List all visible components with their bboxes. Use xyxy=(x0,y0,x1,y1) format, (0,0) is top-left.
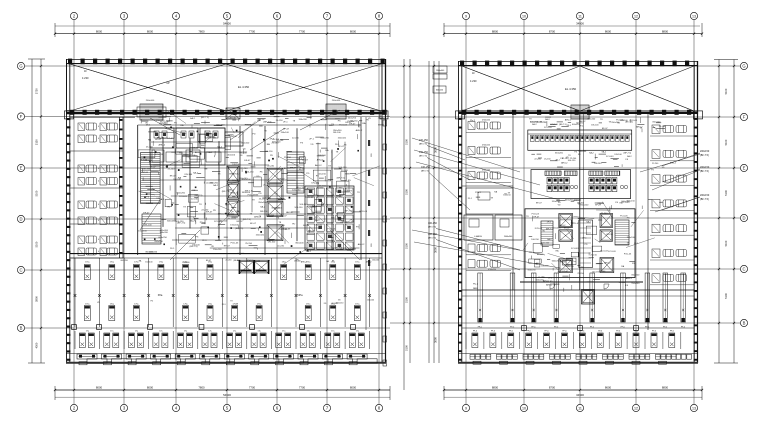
svg-text:5750: 5750 xyxy=(35,88,39,94)
svg-text:350x200: 350x200 xyxy=(578,151,587,153)
svg-text:PD: PD xyxy=(167,206,170,208)
svg-text:22-240: 22-240 xyxy=(206,183,214,185)
svg-text:EF-07: EF-07 xyxy=(563,271,570,273)
svg-text:FP-6: FP-6 xyxy=(652,331,656,333)
svg-text:25-150: 25-150 xyxy=(275,208,283,210)
svg-text:22-240: 22-240 xyxy=(652,163,659,165)
svg-text:(BF-7.5): (BF-7.5) xyxy=(194,195,202,197)
svg-text:FP-6: FP-6 xyxy=(616,331,620,333)
svg-text:22-240: 22-240 xyxy=(292,137,300,139)
svg-text:600x250: 600x250 xyxy=(566,266,575,268)
svg-text:AHU-2: AHU-2 xyxy=(228,189,235,192)
svg-text:25-150: 25-150 xyxy=(316,188,324,190)
svg-text:150x100: 150x100 xyxy=(367,299,374,301)
svg-text:EF-07: EF-07 xyxy=(534,217,541,219)
svg-text:(BF-7.5): (BF-7.5) xyxy=(207,137,215,139)
svg-text:8600: 8600 xyxy=(605,29,612,33)
svg-text:100-150: 100-150 xyxy=(299,204,308,206)
svg-text:1:230: 1:230 xyxy=(82,76,89,80)
svg-text:25-150: 25-150 xyxy=(276,120,284,122)
svg-text:8000: 8000 xyxy=(96,29,103,33)
svg-text:11: 11 xyxy=(578,15,582,19)
svg-text:DN-100: DN-100 xyxy=(333,132,341,134)
svg-text:25-150: 25-150 xyxy=(272,143,280,145)
svg-text:AHU-2: AHU-2 xyxy=(157,136,164,139)
svg-text:350x200: 350x200 xyxy=(587,119,596,121)
svg-text:DN-100: DN-100 xyxy=(144,224,152,226)
svg-text:150x100: 150x100 xyxy=(372,260,379,262)
svg-text:2F-1: 2F-1 xyxy=(146,125,151,127)
svg-text:AHU-2: AHU-2 xyxy=(301,261,307,264)
svg-text:EF-07: EF-07 xyxy=(250,223,257,225)
svg-text:7800: 7800 xyxy=(198,29,205,33)
svg-text:(BF-7.5): (BF-7.5) xyxy=(235,228,243,230)
svg-text:25-150: 25-150 xyxy=(544,158,551,160)
svg-text:RA: RA xyxy=(325,149,329,152)
svg-text:8000: 8000 xyxy=(350,386,357,390)
svg-text:100-150: 100-150 xyxy=(531,239,539,241)
svg-text:FCU-03: FCU-03 xyxy=(231,243,239,245)
svg-text:P2a 2: P2a 2 xyxy=(475,192,481,194)
svg-text:SA-2: SA-2 xyxy=(207,151,213,154)
svg-text:600x250: 600x250 xyxy=(436,90,443,92)
svg-text:T8: T8 xyxy=(230,301,232,303)
svg-text:4700x250: 4700x250 xyxy=(488,269,496,271)
svg-text:100-150: 100-150 xyxy=(421,166,430,169)
svg-text:8800: 8800 xyxy=(662,386,669,390)
svg-text:(BF-7.5): (BF-7.5) xyxy=(201,117,209,119)
svg-text:DN-100: DN-100 xyxy=(551,124,559,126)
svg-text:13: 13 xyxy=(692,407,696,411)
svg-text:EL 4.350: EL 4.350 xyxy=(565,87,577,91)
svg-text:RA: RA xyxy=(332,240,336,243)
svg-text:350x200: 350x200 xyxy=(580,205,589,207)
svg-text:350x200: 350x200 xyxy=(631,274,640,276)
svg-text:FCU-03: FCU-03 xyxy=(339,125,347,127)
svg-text:100-150: 100-150 xyxy=(253,260,260,262)
svg-text:EF-07: EF-07 xyxy=(206,212,213,214)
svg-text:22-240: 22-240 xyxy=(241,168,249,170)
svg-text:4: 4 xyxy=(98,220,99,222)
svg-text:SA-2: SA-2 xyxy=(201,144,207,147)
svg-text:SA-2: SA-2 xyxy=(193,172,199,175)
svg-text:RS: RS xyxy=(371,243,373,247)
svg-text:(BF-7.5): (BF-7.5) xyxy=(421,171,429,173)
svg-text:AHU-2: AHU-2 xyxy=(254,216,261,219)
svg-text:350x200: 350x200 xyxy=(295,242,304,244)
svg-text:FCU-03: FCU-03 xyxy=(624,254,632,256)
svg-text:3000: 3000 xyxy=(434,247,438,253)
svg-text:FCU-03: FCU-03 xyxy=(328,229,336,231)
svg-text:25-150: 25-150 xyxy=(590,255,597,257)
svg-text:PD: PD xyxy=(366,120,369,122)
svg-text:22-240: 22-240 xyxy=(601,213,608,215)
svg-text:PD: PD xyxy=(292,224,295,226)
svg-text:11: 11 xyxy=(578,407,582,411)
svg-text:PD: PD xyxy=(315,217,318,219)
svg-text:EF-07: EF-07 xyxy=(338,146,345,148)
svg-text:2000x300: 2000x300 xyxy=(504,236,512,238)
svg-text:RS: RS xyxy=(371,153,373,157)
svg-text:600x250: 600x250 xyxy=(121,260,128,262)
svg-text:9: 9 xyxy=(465,15,467,19)
svg-text:FCU-03: FCU-03 xyxy=(283,228,291,230)
svg-text:G: G xyxy=(742,64,745,69)
svg-text:25-150: 25-150 xyxy=(140,160,148,162)
svg-text:FCU-03: FCU-03 xyxy=(630,120,638,122)
svg-text:(BF-7.5): (BF-7.5) xyxy=(624,152,632,154)
svg-text:600x250: 600x250 xyxy=(263,198,272,200)
svg-text:8000: 8000 xyxy=(147,386,154,390)
svg-text:FP-6: FP-6 xyxy=(580,331,584,333)
svg-text:FP-6: FP-6 xyxy=(491,331,495,333)
svg-text:VD: VD xyxy=(256,176,259,178)
svg-text:VD: VD xyxy=(186,157,189,159)
svg-text:2F-1: 2F-1 xyxy=(270,138,275,140)
svg-text:22-240: 22-240 xyxy=(534,158,541,160)
svg-text:54600: 54600 xyxy=(223,22,231,26)
svg-text:PD: PD xyxy=(213,210,216,212)
svg-text:1:230: 1:230 xyxy=(470,79,477,83)
svg-text:8000: 8000 xyxy=(147,29,154,33)
svg-text:200x100: 200x100 xyxy=(332,100,341,102)
svg-text:25-150: 25-150 xyxy=(284,157,292,159)
svg-text:FCU-03: FCU-03 xyxy=(608,251,616,253)
svg-text:(BF-7.5): (BF-7.5) xyxy=(700,170,709,173)
svg-text:22-240: 22-240 xyxy=(168,169,176,171)
svg-text:100-150: 100-150 xyxy=(568,160,576,162)
svg-text:5150: 5150 xyxy=(35,139,39,145)
svg-text:150x100: 150x100 xyxy=(541,242,550,244)
svg-text:5100: 5100 xyxy=(724,88,728,94)
svg-text:10: 10 xyxy=(522,407,526,411)
svg-text:NPa: NPa xyxy=(297,293,303,297)
svg-text:350x200: 350x200 xyxy=(652,122,661,124)
svg-text:22-240: 22-240 xyxy=(332,303,338,305)
svg-text:(BF-7.5): (BF-7.5) xyxy=(344,211,352,213)
svg-text:FP-6: FP-6 xyxy=(598,331,602,333)
svg-text:25-150: 25-150 xyxy=(146,147,154,149)
svg-text:22-240: 22-240 xyxy=(341,170,349,172)
svg-text:(BF-7.5): (BF-7.5) xyxy=(337,178,345,180)
svg-text:350x200: 350x200 xyxy=(242,179,251,181)
svg-text:2F-1: 2F-1 xyxy=(202,240,207,242)
svg-text:200x150: 200x150 xyxy=(700,150,710,153)
svg-text:F: F xyxy=(20,114,23,119)
svg-text:DN-100: DN-100 xyxy=(314,225,322,227)
svg-text:FCU-03: FCU-03 xyxy=(179,196,187,198)
svg-text:EF-07: EF-07 xyxy=(279,179,286,181)
svg-text:4: 4 xyxy=(98,204,99,206)
svg-text:150x100: 150x100 xyxy=(627,237,636,239)
svg-text:150x100: 150x100 xyxy=(256,234,265,236)
svg-text:AHU-2: AHU-2 xyxy=(626,277,633,280)
svg-text:G: G xyxy=(19,64,22,69)
svg-text:150x100: 150x100 xyxy=(145,261,152,263)
svg-text:22-240: 22-240 xyxy=(191,199,199,201)
svg-text:5100: 5100 xyxy=(405,297,409,303)
svg-text:FCU-03: FCU-03 xyxy=(155,154,163,156)
svg-text:DN-100: DN-100 xyxy=(232,164,240,166)
svg-text:VD: VD xyxy=(243,148,246,150)
svg-text:54600: 54600 xyxy=(223,393,231,397)
svg-text:34900: 34900 xyxy=(576,393,584,397)
svg-text:12: 12 xyxy=(634,407,638,411)
svg-text:EF-07: EF-07 xyxy=(170,176,177,178)
svg-text:4: 4 xyxy=(98,168,99,170)
svg-text:4: 4 xyxy=(98,239,99,241)
svg-text:VD: VD xyxy=(156,198,159,200)
svg-text:DN-100: DN-100 xyxy=(591,125,599,127)
svg-text:VD: VD xyxy=(617,123,620,125)
svg-text:350x200: 350x200 xyxy=(299,119,308,121)
svg-text:8800: 8800 xyxy=(492,386,499,390)
svg-text:Pla 2: Pla 2 xyxy=(470,120,476,122)
svg-text:22-240: 22-240 xyxy=(226,260,232,262)
svg-text:DN-100: DN-100 xyxy=(192,244,200,246)
svg-text:22-240: 22-240 xyxy=(378,118,386,120)
svg-text:100-150: 100-150 xyxy=(346,222,355,224)
svg-text:600x250: 600x250 xyxy=(321,137,330,139)
svg-text:4: 4 xyxy=(98,126,99,128)
svg-text:AHU-2: AHU-2 xyxy=(286,211,293,214)
svg-text:10: 10 xyxy=(522,15,526,19)
svg-text:EF-07: EF-07 xyxy=(303,225,310,227)
svg-text:(BF-7.5): (BF-7.5) xyxy=(700,198,709,201)
svg-text:4: 4 xyxy=(98,138,99,140)
svg-text:EF-07: EF-07 xyxy=(224,245,231,247)
svg-text:7800: 7800 xyxy=(198,386,205,390)
svg-text:EF-07: EF-07 xyxy=(536,203,543,205)
svg-text:PD: PD xyxy=(282,225,285,227)
svg-text:PD: PD xyxy=(306,173,309,175)
svg-text:FCU-03: FCU-03 xyxy=(306,197,314,199)
svg-text:PD: PD xyxy=(321,204,324,206)
svg-text:22-240: 22-240 xyxy=(599,271,606,273)
svg-text:600x250: 600x250 xyxy=(528,270,537,272)
svg-text:DN-100: DN-100 xyxy=(541,265,549,267)
svg-text:100-150: 100-150 xyxy=(428,222,437,225)
svg-text:DN-100: DN-100 xyxy=(268,242,276,244)
svg-text:100-150: 100-150 xyxy=(142,169,151,171)
svg-text:(BF-7.5): (BF-7.5) xyxy=(428,238,436,240)
svg-text:34900: 34900 xyxy=(576,22,584,26)
svg-text:SA-2: SA-2 xyxy=(260,206,266,209)
svg-text:PD: PD xyxy=(585,244,588,246)
svg-text:PD: PD xyxy=(259,193,262,195)
svg-text:150x100: 150x100 xyxy=(241,143,250,145)
svg-text:22-240: 22-240 xyxy=(267,166,275,168)
svg-text:(BF-7.5): (BF-7.5) xyxy=(419,144,427,146)
svg-text:FCU-03: FCU-03 xyxy=(532,214,540,216)
svg-text:SA-2: SA-2 xyxy=(315,219,321,222)
svg-text:FCU-03: FCU-03 xyxy=(571,248,579,250)
svg-text:8700: 8700 xyxy=(549,29,556,33)
svg-text:100-150: 100-150 xyxy=(175,221,184,223)
svg-text:EF-07: EF-07 xyxy=(237,221,244,223)
svg-text:150x100: 150x100 xyxy=(227,154,236,156)
svg-text:12: 12 xyxy=(634,15,638,19)
svg-text:2F-1: 2F-1 xyxy=(283,121,288,123)
svg-text:NR8: NR8 xyxy=(476,197,481,199)
svg-text:9: 9 xyxy=(465,407,467,411)
svg-text:PD: PD xyxy=(203,223,206,225)
svg-text:150x100: 150x100 xyxy=(631,283,640,285)
svg-text:350x200: 350x200 xyxy=(555,153,564,155)
svg-text:EF-07: EF-07 xyxy=(299,169,306,171)
svg-text:F: F xyxy=(743,115,746,120)
svg-text:(BF-7.5): (BF-7.5) xyxy=(428,227,436,229)
svg-text:FP-6: FP-6 xyxy=(527,331,531,333)
svg-text:350x200: 350x200 xyxy=(154,241,163,243)
svg-text:SA-2: SA-2 xyxy=(213,184,219,187)
svg-text:VD: VD xyxy=(558,205,561,207)
svg-text:5100: 5100 xyxy=(35,190,39,196)
svg-text:5800: 5800 xyxy=(35,296,39,302)
svg-text:7700: 7700 xyxy=(249,29,256,33)
svg-text:PD: PD xyxy=(253,134,256,136)
svg-text:VD: VD xyxy=(566,157,569,159)
svg-text:5100: 5100 xyxy=(724,190,728,196)
svg-text:100-150: 100-150 xyxy=(292,189,301,191)
svg-text:8000: 8000 xyxy=(96,386,103,390)
svg-text:SA-2: SA-2 xyxy=(217,146,223,149)
svg-text:EF-07: EF-07 xyxy=(281,215,288,217)
svg-text:EF-07: EF-07 xyxy=(308,231,315,233)
svg-text:5100: 5100 xyxy=(724,240,728,246)
svg-text:RA: RA xyxy=(362,122,366,125)
svg-text:5100: 5100 xyxy=(35,241,39,247)
svg-text:RA: RA xyxy=(180,124,184,127)
svg-text:2F-1: 2F-1 xyxy=(309,139,314,141)
svg-text:25-150: 25-150 xyxy=(245,243,253,245)
svg-text:DN-100: DN-100 xyxy=(260,211,268,213)
svg-text:PD: PD xyxy=(270,155,273,157)
svg-text:RA: RA xyxy=(267,143,271,146)
svg-text:350x200: 350x200 xyxy=(552,228,561,230)
svg-text:4700x250: 4700x250 xyxy=(482,120,490,122)
svg-text:25-150: 25-150 xyxy=(227,213,235,215)
svg-text:600x250: 600x250 xyxy=(621,201,630,203)
svg-text:EF-07: EF-07 xyxy=(290,167,297,169)
svg-text:4700x250: 4700x250 xyxy=(482,145,490,147)
svg-text:150x100: 150x100 xyxy=(213,249,222,251)
svg-text:E: E xyxy=(20,166,23,171)
svg-text:FCU-03: FCU-03 xyxy=(606,156,614,158)
svg-text:P2a: P2a xyxy=(158,293,163,297)
svg-text:600x250: 600x250 xyxy=(552,261,561,263)
svg-text:22-240: 22-240 xyxy=(277,246,285,248)
svg-text:PD: PD xyxy=(179,153,182,155)
svg-text:25-150: 25-150 xyxy=(335,248,343,250)
svg-text:DN-100: DN-100 xyxy=(173,179,181,181)
svg-text:3000: 3000 xyxy=(434,147,438,153)
svg-text:1900x600: 1900x600 xyxy=(436,70,444,72)
svg-text:4300: 4300 xyxy=(35,342,39,348)
svg-text:5100: 5100 xyxy=(724,293,728,299)
svg-text:7700: 7700 xyxy=(299,29,306,33)
svg-text:PD: PD xyxy=(558,202,561,204)
svg-text:E: E xyxy=(743,166,746,171)
svg-text:(BF-7.5): (BF-7.5) xyxy=(296,187,304,189)
svg-text:D: D xyxy=(19,217,22,222)
svg-text:DN-100: DN-100 xyxy=(140,172,148,174)
svg-text:PD: PD xyxy=(315,195,318,197)
svg-text:FCU-03: FCU-03 xyxy=(544,127,552,129)
svg-text:7700: 7700 xyxy=(299,386,306,390)
svg-text:EF-07: EF-07 xyxy=(349,124,356,126)
svg-text:5100: 5100 xyxy=(405,189,409,195)
svg-text:2F-1: 2F-1 xyxy=(170,248,175,250)
svg-text:AHU-2: AHU-2 xyxy=(233,173,240,176)
svg-text:5100: 5100 xyxy=(405,243,409,249)
svg-text:AHU-2: AHU-2 xyxy=(218,213,225,216)
svg-text:200x150: 200x150 xyxy=(700,166,710,169)
svg-text:FCU-03: FCU-03 xyxy=(616,120,624,122)
svg-text:25-150: 25-150 xyxy=(606,234,613,236)
svg-text:RA: RA xyxy=(148,138,152,141)
svg-text:13: 13 xyxy=(692,15,696,19)
svg-text:EL 4.350: EL 4.350 xyxy=(238,85,250,89)
svg-text:AHU-2: AHU-2 xyxy=(230,192,237,195)
svg-text:150x100: 150x100 xyxy=(182,262,189,264)
svg-text:350x200: 350x200 xyxy=(160,232,169,234)
svg-text:EF-07: EF-07 xyxy=(206,260,211,262)
svg-text:150x100: 150x100 xyxy=(338,138,347,140)
svg-text:FCU-03: FCU-03 xyxy=(600,251,608,253)
svg-text:FP-6: FP-6 xyxy=(670,331,674,333)
svg-text:600x250: 600x250 xyxy=(348,117,357,119)
svg-text:8600: 8600 xyxy=(605,386,612,390)
svg-text:5100: 5100 xyxy=(724,139,728,145)
svg-text:B: B xyxy=(20,326,23,331)
svg-text:DN-100: DN-100 xyxy=(615,154,623,156)
svg-text:25-150: 25-150 xyxy=(319,185,327,187)
svg-text:150x100: 150x100 xyxy=(138,231,147,233)
svg-text:100-150: 100-150 xyxy=(350,121,359,123)
svg-text:AHU-2: AHU-2 xyxy=(561,162,568,165)
svg-text:8800: 8800 xyxy=(492,29,499,33)
svg-text:AHU-2: AHU-2 xyxy=(159,144,166,147)
svg-text:FCU-03: FCU-03 xyxy=(228,218,236,220)
svg-text:EF-07: EF-07 xyxy=(143,212,150,214)
svg-text:FP-6: FP-6 xyxy=(509,331,513,333)
svg-text:SA-2: SA-2 xyxy=(159,198,165,201)
svg-text:FP-6: FP-6 xyxy=(634,331,638,333)
svg-text:(BF-7.5): (BF-7.5) xyxy=(419,156,427,158)
svg-text:UP: UP xyxy=(166,82,170,85)
svg-text:8800: 8800 xyxy=(662,29,669,33)
svg-text:AHU-2: AHU-2 xyxy=(366,261,372,264)
svg-text:100-150: 100-150 xyxy=(318,174,327,176)
svg-text:AHU-2: AHU-2 xyxy=(315,164,322,167)
svg-text:200x100: 200x100 xyxy=(146,100,155,102)
svg-text:(BF-7.5): (BF-7.5) xyxy=(243,219,251,221)
svg-text:7700: 7700 xyxy=(249,386,256,390)
svg-text:EF-07: EF-07 xyxy=(150,167,157,169)
svg-text:(BF-7.5): (BF-7.5) xyxy=(245,190,253,192)
svg-text:FCU-03: FCU-03 xyxy=(248,195,256,197)
svg-text:EF-07: EF-07 xyxy=(167,138,174,140)
svg-text:4: 4 xyxy=(98,181,99,183)
svg-text:FCU-03: FCU-03 xyxy=(230,117,238,119)
svg-text:600x250: 600x250 xyxy=(158,237,167,239)
svg-text:B: B xyxy=(743,321,746,326)
svg-text:VD: VD xyxy=(275,194,278,196)
svg-text:SA-2: SA-2 xyxy=(190,117,196,120)
svg-text:EF-07: EF-07 xyxy=(155,139,162,141)
svg-text:100-150: 100-150 xyxy=(294,207,303,209)
